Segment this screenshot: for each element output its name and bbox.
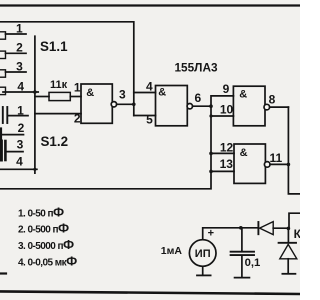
- svg-text:1: 1: [17, 103, 24, 117]
- svg-text:2: 2: [74, 111, 81, 125]
- svg-text:1мА: 1мА: [161, 245, 183, 257]
- svg-text:3: 3: [16, 59, 23, 73]
- svg-text:1. 0-50 пФ: 1. 0-50 пФ: [18, 204, 64, 219]
- svg-text:4: 4: [17, 79, 24, 93]
- svg-text:2: 2: [16, 41, 23, 55]
- svg-text:&: &: [158, 86, 166, 98]
- svg-text:6: 6: [194, 91, 201, 105]
- svg-text:ИП: ИП: [195, 248, 211, 260]
- svg-text:5: 5: [146, 112, 153, 126]
- svg-text:2: 2: [18, 121, 25, 135]
- svg-text:3: 3: [17, 137, 24, 151]
- svg-text:4. 0-0,05 мкФ: 4. 0-0,05 мкФ: [18, 253, 77, 268]
- svg-text:2. 0-500 пФ: 2. 0-500 пФ: [18, 220, 69, 235]
- svg-text:К: К: [294, 227, 300, 241]
- svg-text:4: 4: [146, 80, 153, 94]
- svg-text:&: &: [240, 147, 248, 159]
- svg-text:10: 10: [220, 103, 234, 117]
- svg-text:S1.2: S1.2: [41, 134, 69, 149]
- svg-text:1: 1: [74, 80, 81, 94]
- svg-text:13: 13: [220, 157, 234, 171]
- svg-text:1: 1: [16, 21, 23, 35]
- svg-text:8: 8: [269, 92, 276, 106]
- svg-text:&: &: [86, 87, 94, 99]
- svg-text:11к: 11к: [50, 79, 68, 91]
- svg-text:+: +: [208, 227, 214, 239]
- svg-text:&: &: [239, 89, 247, 101]
- svg-text:S1.1: S1.1: [40, 39, 68, 54]
- svg-text:3: 3: [119, 88, 126, 102]
- svg-text:12: 12: [220, 140, 234, 154]
- svg-text:155ЛА3: 155ЛА3: [175, 61, 218, 75]
- svg-text:0,1: 0,1: [245, 257, 261, 269]
- svg-text:3. 0-5000 пФ: 3. 0-5000 пФ: [18, 237, 74, 252]
- svg-text:11: 11: [269, 151, 282, 165]
- svg-text:4: 4: [16, 155, 23, 169]
- svg-text:9: 9: [223, 82, 230, 96]
